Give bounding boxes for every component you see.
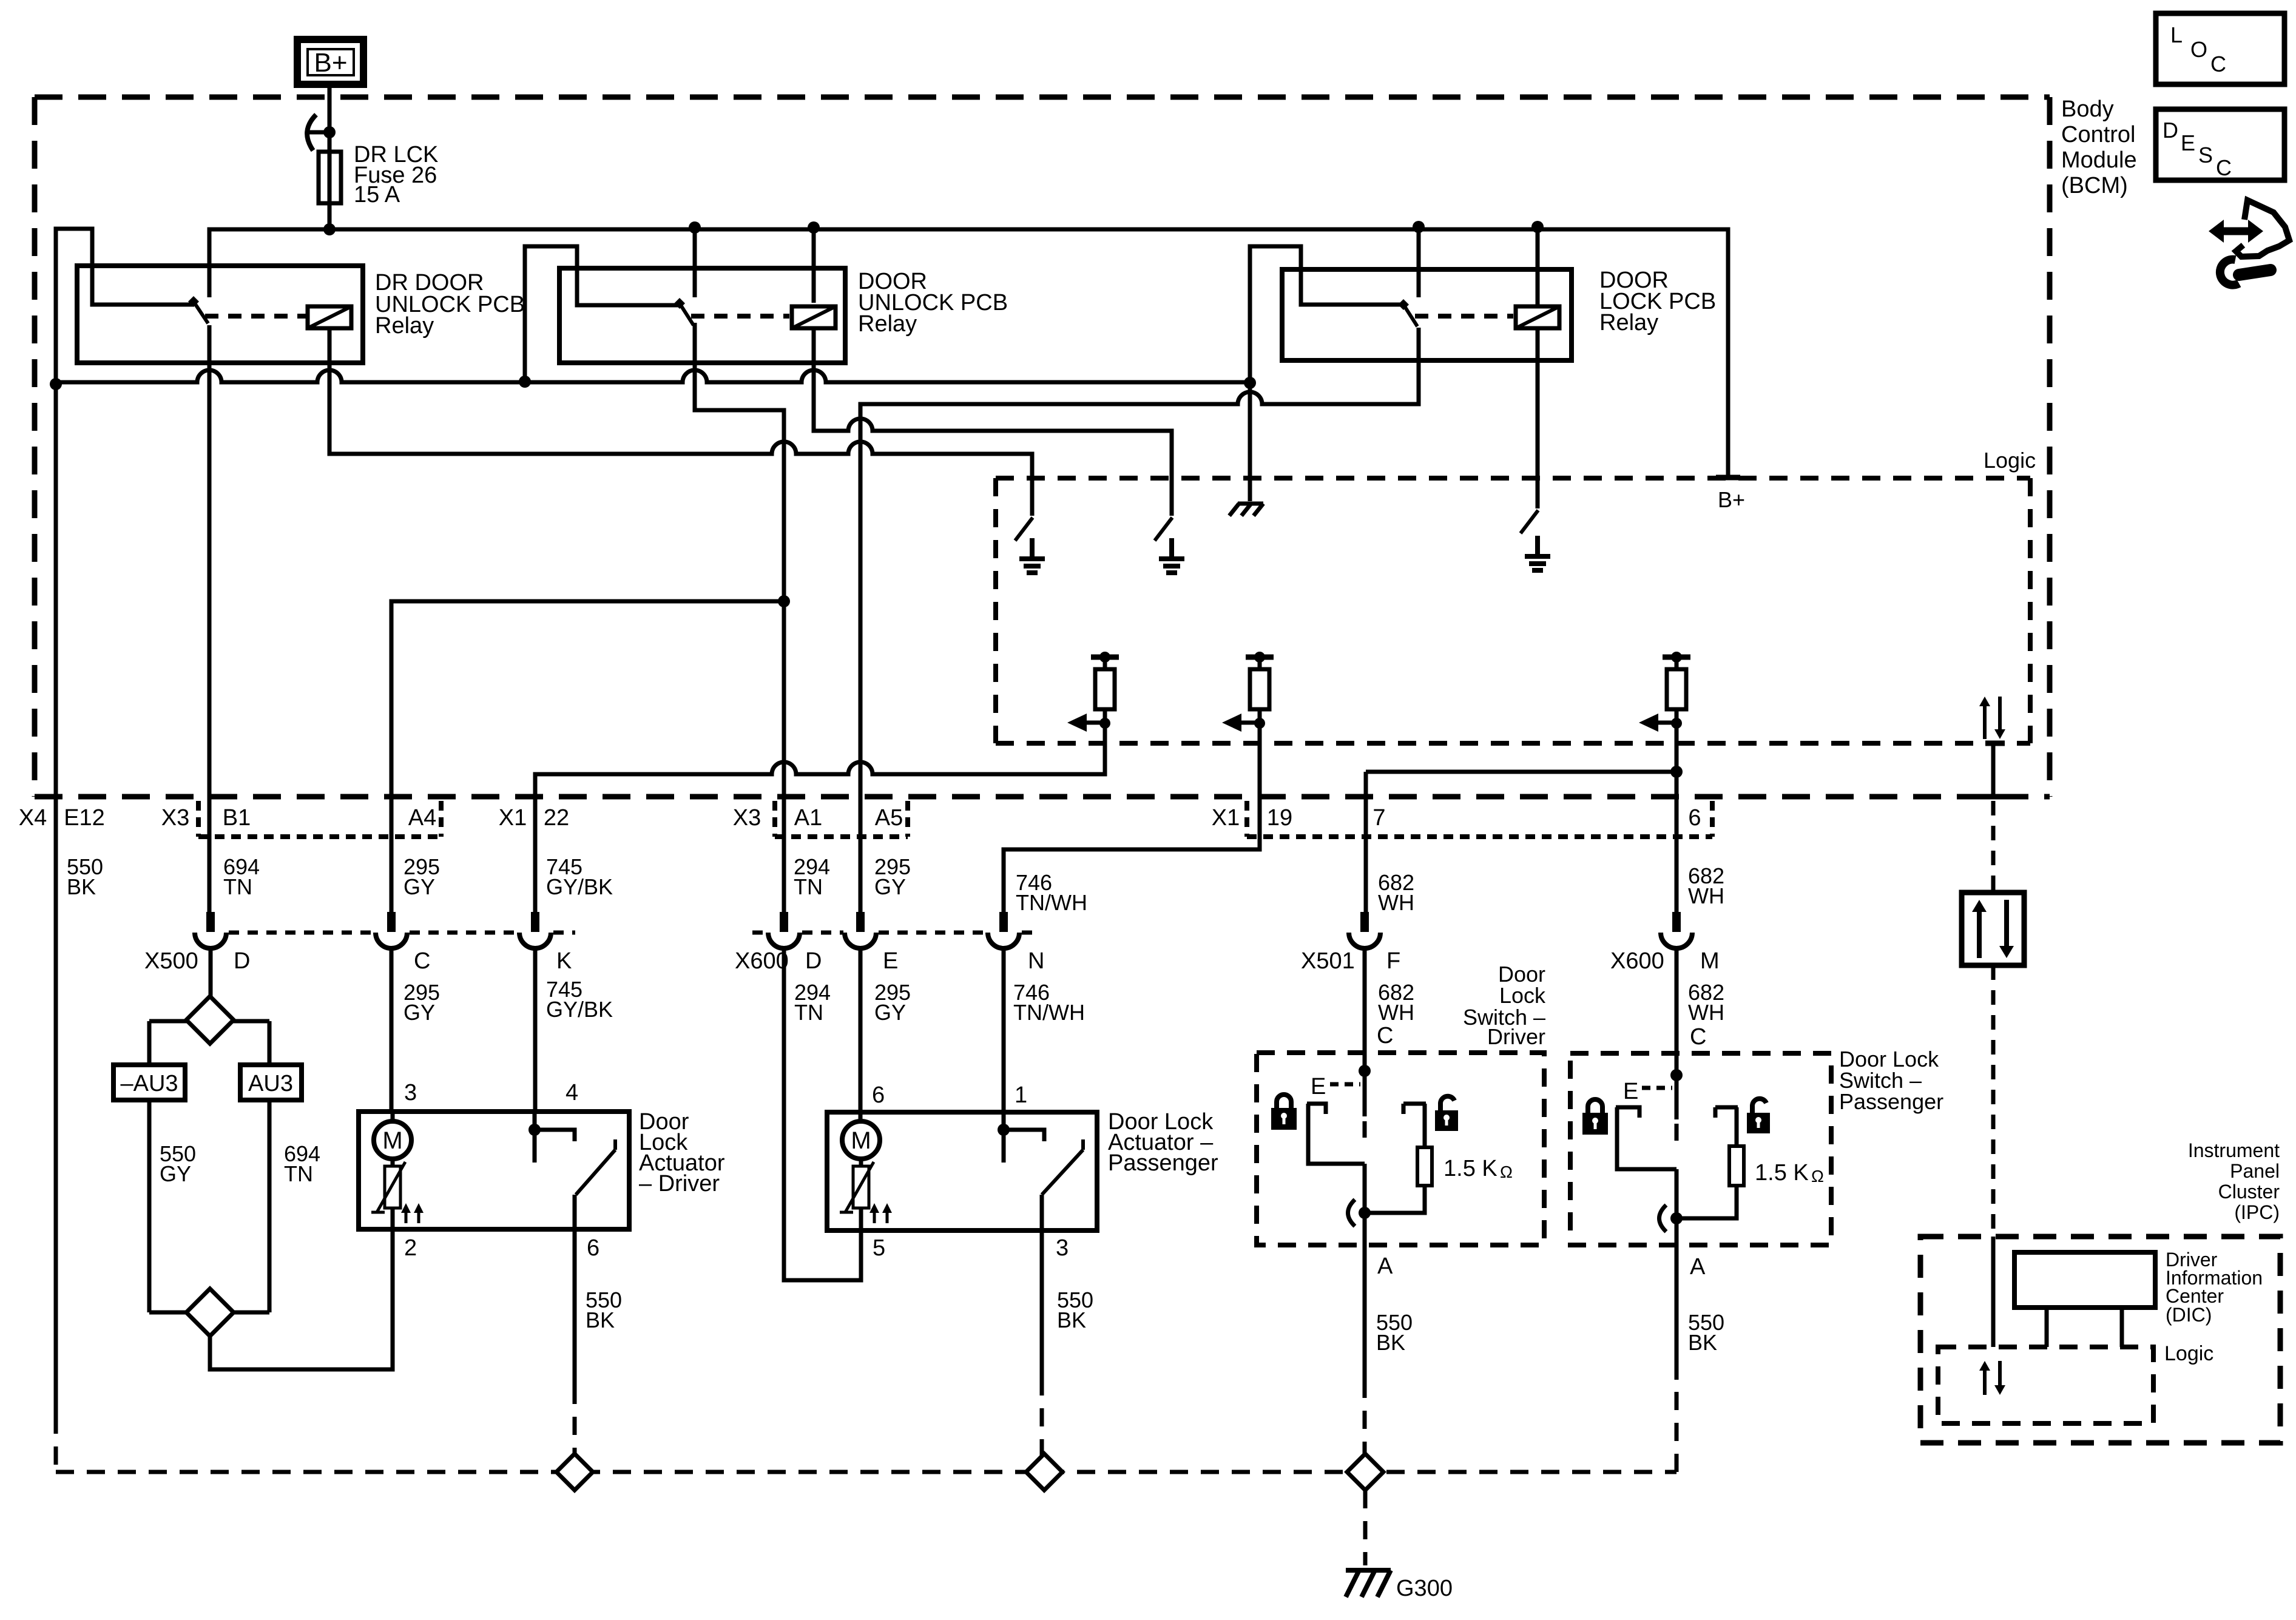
svg-text:B1: B1 — [223, 805, 251, 831]
svg-text:X600: X600 — [1610, 948, 1664, 974]
svg-text:GY/BK: GY/BK — [546, 874, 613, 899]
svg-text:WH: WH — [1688, 1000, 1724, 1025]
svg-text:GY: GY — [874, 874, 906, 899]
svg-text:X1: X1 — [1212, 805, 1240, 831]
svg-text:GY: GY — [403, 1000, 435, 1025]
svg-text:Passenger: Passenger — [1108, 1150, 1218, 1176]
svg-text:N: N — [1028, 948, 1044, 974]
svg-text:Control: Control — [2061, 122, 2136, 147]
svg-text:TN: TN — [284, 1161, 313, 1186]
svg-text:5: 5 — [873, 1235, 885, 1261]
svg-text:(IPC): (IPC) — [2234, 1201, 2280, 1223]
svg-text:M: M — [851, 1127, 871, 1154]
svg-text:Relay: Relay — [375, 313, 434, 339]
svg-text:GY/BK: GY/BK — [546, 997, 613, 1022]
svg-text:TN/WH: TN/WH — [1013, 1000, 1085, 1025]
svg-text:6: 6 — [872, 1082, 885, 1108]
svg-text:E: E — [1623, 1079, 1638, 1104]
svg-text:2: 2 — [404, 1235, 417, 1261]
svg-text:E: E — [2181, 130, 2195, 155]
svg-text:E: E — [883, 948, 898, 974]
svg-text:A: A — [1690, 1254, 1706, 1280]
svg-text:D: D — [805, 948, 822, 974]
svg-text:– Driver: – Driver — [639, 1171, 720, 1196]
svg-text:Logic: Logic — [1984, 448, 2036, 473]
svg-text:K: K — [556, 948, 572, 974]
svg-text:Module: Module — [2061, 147, 2137, 173]
svg-text:BK: BK — [1688, 1330, 1717, 1355]
svg-text:X1: X1 — [499, 805, 527, 831]
svg-text:Lock: Lock — [1499, 983, 1546, 1008]
svg-text:G300: G300 — [1396, 1576, 1453, 1601]
svg-text:C: C — [414, 948, 430, 974]
svg-text:Ω: Ω — [1811, 1167, 1824, 1186]
svg-text:Logic: Logic — [2164, 1342, 2213, 1365]
svg-text:WH: WH — [1378, 1000, 1414, 1025]
svg-text:–AU3: –AU3 — [120, 1071, 178, 1096]
svg-text:B+: B+ — [1718, 487, 1745, 512]
svg-text:22: 22 — [544, 805, 569, 831]
svg-text:WH: WH — [1688, 883, 1724, 908]
svg-text:1.5 K: 1.5 K — [1443, 1156, 1497, 1181]
svg-text:Instrument: Instrument — [2188, 1139, 2280, 1161]
svg-text:TN: TN — [794, 1000, 823, 1025]
svg-text:7: 7 — [1373, 805, 1385, 831]
svg-text:GY: GY — [874, 1000, 906, 1025]
svg-text:A: A — [1377, 1254, 1393, 1279]
svg-text:Passenger: Passenger — [1839, 1089, 1943, 1114]
svg-text:6: 6 — [587, 1235, 599, 1261]
svg-text:D: D — [234, 948, 250, 974]
svg-text:AU3: AU3 — [248, 1071, 293, 1096]
svg-text:1.5 K: 1.5 K — [1755, 1160, 1809, 1186]
svg-text:WH: WH — [1378, 890, 1414, 915]
svg-text:X600: X600 — [735, 948, 789, 974]
svg-text:3: 3 — [1056, 1235, 1069, 1261]
svg-text:L: L — [2170, 22, 2183, 47]
svg-text:BK: BK — [67, 874, 96, 899]
svg-text:O: O — [2190, 37, 2207, 62]
svg-text:X3: X3 — [161, 805, 189, 831]
svg-text:BK: BK — [586, 1308, 615, 1332]
svg-text:E: E — [1311, 1074, 1326, 1099]
svg-text:6: 6 — [1688, 805, 1701, 831]
svg-text:F: F — [1386, 948, 1400, 974]
svg-text:E12: E12 — [64, 805, 105, 831]
svg-text:X4: X4 — [19, 805, 47, 831]
svg-text:(BCM): (BCM) — [2061, 173, 2128, 198]
svg-text:TN: TN — [794, 874, 823, 899]
svg-text:D: D — [2163, 118, 2178, 143]
svg-text:B+: B+ — [314, 48, 347, 78]
svg-text:Driver: Driver — [1487, 1024, 1545, 1049]
svg-text:19: 19 — [1267, 805, 1292, 831]
svg-text:A1: A1 — [794, 805, 822, 831]
svg-text:X500: X500 — [144, 948, 198, 974]
svg-text:BK: BK — [1376, 1330, 1405, 1355]
svg-text:S: S — [2198, 143, 2213, 167]
svg-text:X3: X3 — [733, 805, 761, 831]
svg-text:BK: BK — [1057, 1308, 1086, 1332]
svg-text:TN/WH: TN/WH — [1016, 890, 1087, 915]
svg-text:C: C — [2210, 52, 2226, 76]
svg-text:C: C — [1377, 1023, 1393, 1048]
svg-text:C: C — [2216, 155, 2232, 180]
svg-text:15 A: 15 A — [354, 182, 400, 208]
svg-text:M: M — [1700, 948, 1720, 974]
svg-text:A4: A4 — [408, 805, 436, 831]
svg-text:A5: A5 — [875, 805, 903, 831]
svg-text:C: C — [1690, 1024, 1706, 1050]
svg-text:(DIC): (DIC) — [2166, 1304, 2212, 1326]
svg-text:Body: Body — [2061, 96, 2114, 122]
svg-text:Panel: Panel — [2230, 1160, 2280, 1182]
svg-text:Ω: Ω — [1500, 1163, 1513, 1181]
svg-text:M: M — [382, 1127, 402, 1154]
svg-text:Relay: Relay — [1599, 310, 1658, 336]
svg-text:GY: GY — [403, 874, 435, 899]
svg-text:GY: GY — [160, 1161, 191, 1186]
svg-text:TN: TN — [223, 874, 252, 899]
svg-text:Cluster: Cluster — [2218, 1181, 2280, 1203]
svg-text:1: 1 — [1015, 1082, 1027, 1108]
svg-text:Relay: Relay — [858, 311, 917, 337]
svg-text:X501: X501 — [1301, 948, 1355, 974]
svg-text:4: 4 — [566, 1080, 578, 1105]
svg-text:3: 3 — [404, 1080, 417, 1105]
